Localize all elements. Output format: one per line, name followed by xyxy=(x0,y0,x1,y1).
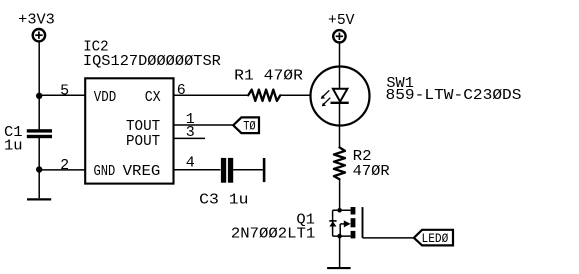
flag LED0 xyxy=(414,230,453,246)
resistor R1 470R xyxy=(234,68,303,101)
wire pin6 to R1 xyxy=(174,94,249,96)
capacitor C1 xyxy=(4,124,52,155)
svg-text:POUT: POUT xyxy=(126,133,160,150)
junction dot pin5 node xyxy=(36,93,42,99)
svg-text:2N7ØØ2LT1: 2N7ØØ2LT1 xyxy=(231,225,315,242)
svg-text:CX: CX xyxy=(145,89,161,106)
svg-text:47ØR: 47ØR xyxy=(353,163,390,180)
capacitor C3 xyxy=(199,158,248,209)
wire pin2 xyxy=(39,169,84,171)
wire +5V to LED xyxy=(339,43,341,90)
wire R2 to Q1 xyxy=(339,179,341,210)
svg-text:4: 4 xyxy=(186,154,195,171)
wire C1 to ground xyxy=(38,138,40,198)
svg-text:6: 6 xyxy=(177,82,186,99)
resistor R2 470R xyxy=(334,147,390,179)
wire pin5 xyxy=(39,94,84,96)
junction dot pin2 node xyxy=(36,166,42,172)
svg-text:GND: GND xyxy=(94,163,116,180)
power +3V3 xyxy=(18,12,55,42)
svg-text:IQS127DØØØØØTSR: IQS127DØØØØØTSR xyxy=(83,53,221,70)
svg-text:TØ: TØ xyxy=(243,119,256,133)
transistor Q1 2N7002LT1 xyxy=(231,207,363,242)
svg-text:R1 47ØR: R1 47ØR xyxy=(234,68,303,85)
ground C3 rotated xyxy=(263,158,266,182)
wire pin3 stub xyxy=(174,137,206,139)
ground left xyxy=(27,198,51,200)
wire Q1 source to ground xyxy=(339,236,341,267)
LED SW1 859-LTW-C230DS xyxy=(311,67,522,126)
wire +3V3 to C1 xyxy=(38,42,40,130)
svg-text:LEDØ: LEDØ xyxy=(422,232,449,246)
svg-text:VREG: VREG xyxy=(123,163,161,180)
wire R1 to LED xyxy=(280,94,310,96)
svg-text:1u: 1u xyxy=(4,137,23,154)
flag T0 xyxy=(233,117,259,133)
wire LED to R2 xyxy=(339,103,341,148)
svg-text:+5V: +5V xyxy=(328,12,355,29)
power +5V xyxy=(328,12,355,42)
wire pin4 to C3 xyxy=(174,169,221,171)
wire C3 to ground xyxy=(233,169,263,171)
svg-text:2: 2 xyxy=(60,157,69,174)
wire pin1 to T0 xyxy=(174,124,234,126)
ground right xyxy=(327,267,351,269)
svg-text:859-LTW-C23ØDS: 859-LTW-C23ØDS xyxy=(386,87,522,104)
svg-text:VDD: VDD xyxy=(94,89,116,106)
svg-text:+3V3: +3V3 xyxy=(18,12,55,29)
IC IC2 IQS127D00000TSR xyxy=(83,39,221,184)
svg-text:5: 5 xyxy=(60,82,69,99)
svg-text:C3 1u: C3 1u xyxy=(199,192,248,209)
wire Q1 gate to LED0 xyxy=(363,237,414,239)
